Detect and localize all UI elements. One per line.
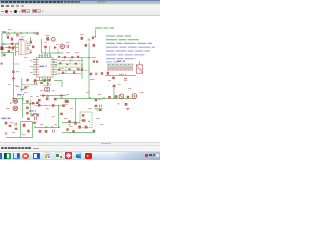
resistor R16 (58, 69, 60, 71)
net label N1 (2, 31, 7, 33)
capacitor C16 (93, 60, 95, 62)
label lm (20, 88, 26, 90)
label q (80, 34, 84, 36)
resistor R29 (27, 118, 30, 120)
connector X1 (19, 41, 28, 55)
resistor R64 (74, 122, 76, 124)
junction node (48, 83, 49, 84)
resistor R36 (101, 72, 104, 75)
resistor R11 (64, 56, 66, 58)
label SV1 (117, 60, 125, 62)
resistor R39 (127, 96, 130, 98)
resistor R31 (39, 130, 42, 133)
rectifier B1 (0, 46, 3, 50)
transistor Q5 (78, 126, 81, 129)
taskbar (0, 151, 160, 160)
diode D3 (67, 63, 70, 66)
wire (40, 95, 66, 97)
resistor R25 (36, 102, 39, 104)
menu bar (0, 4, 160, 8)
varistor RV1 (60, 44, 65, 49)
label r34 (98, 99, 101, 101)
text blue 1 (106, 42, 152, 44)
text blue 2 (106, 46, 155, 48)
scrollbar band (0, 142, 160, 146)
resistor R13 (77, 56, 79, 58)
label pin top2 (44, 54, 47, 56)
resistor R53 (54, 98, 57, 101)
resistor R66 (72, 130, 74, 133)
motor M1 (132, 94, 137, 99)
resistor R54 (38, 104, 40, 107)
toolbar (0, 8, 160, 16)
ground (126, 109, 129, 111)
resistor R12 (71, 56, 73, 58)
wire (62, 123, 95, 133)
wire (94, 104, 103, 109)
text blue 3 (106, 50, 150, 52)
label blue small (29, 110, 36, 112)
capacitor C1 (16, 35, 19, 37)
wire (56, 98, 136, 100)
junction node (46, 127, 47, 128)
junction node (47, 95, 48, 96)
resistor R38 (108, 96, 111, 98)
node VCC supply B (13, 32, 15, 34)
speaker LS1 (119, 94, 124, 99)
title text (1, 1, 63, 3)
junction node (45, 105, 46, 106)
wire (15, 44, 17, 56)
node VCC supply D (26, 32, 28, 34)
transistor Q2 (31, 114, 34, 117)
resistor R63 (68, 120, 71, 123)
IC U1 right pins (53, 59, 57, 61)
wire (46, 46, 59, 57)
label xt2 (48, 84, 51, 86)
resistor R50 (24, 86, 26, 88)
resistor R17 (62, 72, 64, 74)
wire (27, 44, 31, 54)
label rt (96, 109, 102, 111)
junction node (88, 121, 89, 122)
label t1 (16, 34, 20, 36)
resistor R18 (73, 71, 75, 73)
wire (30, 99, 32, 116)
resistor R48 (26, 79, 28, 82)
IC U1 bottom pins (39, 77, 41, 81)
capacitor C11 (95, 73, 98, 75)
label t2 (21, 36, 24, 38)
capacitor C15 (48, 79, 50, 82)
resistor R5 (30, 41, 32, 44)
resistor R2 (11, 38, 13, 41)
wire (23, 103, 39, 105)
label U1 value (40, 65, 47, 67)
label T1 (46, 35, 50, 37)
resistor R58 (93, 44, 95, 47)
wire (13, 53, 15, 99)
resistor R49 (34, 79, 37, 82)
text title green 2 (106, 39, 139, 41)
resistor R21 (26, 100, 28, 103)
crystal Y1 (45, 88, 50, 91)
ground (12, 77, 15, 81)
diode D7 (61, 94, 64, 97)
resistor R22 (26, 107, 28, 110)
capacitor C3 (30, 51, 33, 53)
wire (22, 96, 24, 118)
wire (12, 98, 23, 100)
junction node (47, 83, 48, 84)
wire (3, 43, 17, 45)
schematic svg (0, 0, 160, 160)
wire (81, 58, 83, 79)
relay K1 (136, 65, 142, 73)
pin column X1 right (25, 43, 26, 53)
transistor Q3 (36, 114, 39, 117)
resistor R52 (46, 98, 49, 101)
wire (84, 69, 89, 71)
wire (5, 47, 17, 49)
resistor R3 (3, 54, 5, 57)
capacitor C4 (67, 45, 69, 49)
resistor R9 (112, 77, 115, 79)
diode D5 (5, 122, 8, 125)
resistor R57 (85, 44, 87, 47)
transistor Q1 (46, 37, 49, 40)
wire (21, 78, 23, 92)
wire (94, 30, 96, 38)
wire (2, 32, 38, 34)
resistor R60 (81, 68, 83, 71)
wire (16, 44, 19, 52)
resistor R56 (62, 105, 64, 107)
resistor R44 (95, 105, 98, 107)
op-amp U1 body (37, 58, 54, 78)
capacitor C6 (35, 82, 37, 85)
wire junctions (17, 43, 18, 44)
status bar (0, 146, 160, 151)
junction node (88, 57, 89, 58)
resistor R40 (125, 103, 128, 106)
capacitor C7 (35, 117, 37, 121)
resistor R62 (77, 68, 79, 70)
resistor R20 (1, 63, 3, 65)
resistor R34 (95, 99, 98, 101)
title bar (0, 0, 160, 4)
label xt (43, 85, 47, 87)
junction node (10, 102, 11, 103)
resistor R51 (38, 99, 41, 102)
resistor R45 (8, 46, 10, 48)
label R9 (119, 73, 126, 75)
resistor R43 (93, 130, 96, 132)
label cluster (90, 79, 96, 81)
canvas (0, 16, 160, 142)
diode D1 (11, 43, 13, 45)
wire (78, 57, 96, 59)
resistor R10 (58, 56, 60, 57)
node VCC supply C (20, 32, 22, 34)
node VCC supply E (33, 32, 35, 34)
text blue 4 (106, 54, 146, 56)
wire (30, 37, 32, 41)
transistor Q4 (23, 124, 26, 127)
wire (14, 63, 20, 65)
capacitor C5 (124, 79, 127, 81)
text title green 1 (106, 35, 131, 37)
resistor R14 (59, 62, 61, 64)
text blue 5 (106, 58, 136, 60)
wire (75, 99, 77, 123)
resistor R65 (66, 128, 69, 131)
diode D2 (54, 46, 57, 49)
inductor L1 (65, 100, 69, 103)
resistor R47 (99, 109, 101, 111)
capacitor C17 (96, 61, 98, 63)
resistor R23 (26, 112, 28, 115)
polyswitch F1 (115, 95, 118, 98)
resistor R6 (32, 46, 34, 49)
diode D4 (12, 71, 14, 73)
text note line (95, 27, 114, 29)
resistor R7 (44, 46, 47, 49)
node arrow (94, 36, 96, 38)
wire (1, 52, 14, 54)
junction node (118, 103, 119, 104)
tray icons (145, 154, 148, 157)
wire (105, 75, 136, 77)
wire (6, 137, 33, 139)
text bottom label (2, 117, 11, 119)
resistor R59 (81, 37, 84, 40)
wire (66, 58, 70, 74)
wire (34, 105, 64, 107)
LED LED1 (13, 99, 18, 104)
wire (22, 84, 38, 86)
capacitor C12 (100, 105, 102, 108)
wire (21, 122, 33, 138)
resistor R4 (8, 50, 10, 52)
resistor R24 (32, 102, 35, 104)
junction node (58, 105, 59, 106)
capacitor C13 (36, 32, 38, 35)
shield box (80, 112, 92, 128)
resistor R41 (82, 114, 85, 116)
LED LED2 (13, 106, 18, 111)
value labels (8, 29, 11, 30)
capacitor C14 (43, 79, 45, 82)
capacitor C8 (15, 123, 17, 126)
resistor R26 (33, 122, 36, 124)
text blue 6 (106, 61, 120, 63)
resistor R67 (92, 37, 94, 39)
label lm2 (15, 85, 18, 87)
wire (1, 33, 3, 57)
resistor R55 (52, 104, 54, 107)
resistor R33 (60, 113, 63, 115)
label blue xtal (33, 113, 39, 115)
wire (57, 58, 83, 74)
resistor R42 (82, 119, 86, 122)
diode D6 (43, 94, 46, 97)
resistor R1 (7, 36, 9, 39)
wire (54, 81, 62, 88)
capacitor C10 (53, 130, 55, 133)
wire (34, 81, 48, 87)
label b1 (69, 125, 73, 127)
label pin top (39, 54, 42, 56)
pin header SV1 pins (107, 64, 109, 67)
net label GND1 (1, 43, 5, 45)
resistor R27 (9, 125, 12, 127)
node VCC supply A (7, 32, 9, 34)
wire (36, 106, 60, 128)
resistor R46 (12, 46, 14, 48)
resistor R8 (107, 72, 109, 75)
resistor R37 (113, 85, 116, 88)
resistor R61 (68, 68, 70, 70)
wire (88, 43, 90, 99)
IC U1 top pins (39, 54, 41, 58)
resistor R32 (45, 130, 48, 133)
resistor R19 (40, 82, 43, 84)
label IC2 (17, 94, 24, 96)
resistor R35 (90, 73, 93, 76)
node VCC supply F (88, 38, 91, 40)
transistor Q6 (85, 126, 88, 129)
capacitor C2 (12, 49, 14, 50)
wire (42, 39, 64, 53)
resistor R28 (15, 128, 18, 130)
label X1 (19, 38, 24, 40)
ground (5, 133, 8, 134)
resistor R15 (75, 63, 77, 65)
wire (113, 88, 115, 98)
resistor R30 (27, 130, 30, 133)
pin numbers SV1 (108, 64, 109, 65)
pin column X1 left (21, 43, 22, 53)
IC U1 left pins (33, 59, 37, 61)
